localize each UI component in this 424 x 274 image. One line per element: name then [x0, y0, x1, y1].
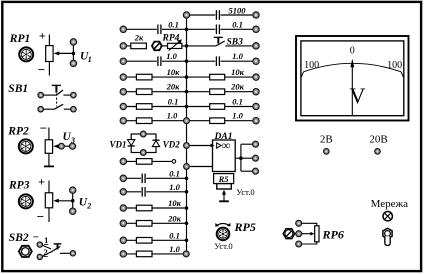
RP1 wiper arrow to node U1	[54, 51, 74, 55]
svg-text:DA1: DA1	[214, 132, 233, 142]
svg-text:100: 100	[304, 60, 319, 71]
wire RP4 screw to body	[162, 45, 168, 47]
terminal 2V	[324, 149, 330, 155]
op-amp DA1 box	[213, 140, 236, 172]
junction lower row	[185, 239, 189, 243]
capacitor 5100	[215, 10, 220, 21]
terminal VD loop top	[140, 131, 146, 137]
svg-text:Мережа: Мережа	[371, 198, 409, 210]
potentiometer RP2 body	[45, 128, 52, 167]
junction row	[185, 90, 189, 94]
svg-text:1.0: 1.0	[232, 51, 243, 61]
svg-text:R5: R5	[218, 174, 230, 184]
DA1 input arrow	[211, 144, 215, 148]
push-button SB1 terminals	[38, 92, 44, 98]
svg-text:0.1: 0.1	[169, 168, 180, 178]
svg-text:VD2: VD2	[163, 139, 181, 149]
resistor 20&#1082; left	[136, 89, 152, 95]
capacitor 0.1 left	[157, 24, 162, 35]
svg-text:10к: 10к	[168, 198, 182, 208]
svg-text:20к: 20к	[166, 82, 181, 92]
vertical bus wire	[186, 15, 188, 254]
capacitor 1.0 right	[215, 56, 220, 67]
SB2 terminal 1	[37, 242, 42, 247]
resistor 0.1 lower	[136, 238, 152, 244]
terminal DA1 out mid	[253, 155, 259, 161]
wire row RP4	[126, 45, 131, 47]
resistor 2k	[131, 43, 147, 49]
RP2 ground bar	[44, 165, 54, 167]
svg-text:SB3: SB3	[227, 37, 244, 47]
terminal U1 bottom	[70, 60, 76, 66]
svg-text:1.0: 1.0	[167, 111, 178, 121]
svg-text:RP2: RP2	[7, 126, 29, 138]
trimmer RP4 screw	[152, 41, 162, 50]
indicator lamp	[383, 212, 392, 221]
junction row RP4	[185, 44, 189, 48]
wire left row 0.1	[126, 28, 186, 30]
svg-text:RP5: RP5	[234, 220, 256, 234]
switch SB3	[187, 37, 253, 46]
wire lower row 20&#1082;	[126, 222, 186, 224]
trimmer RP6 screw	[283, 229, 294, 239]
terminal lower row 20&#1082;	[120, 220, 126, 226]
terminal U2 top	[70, 187, 76, 193]
wire left row 1.0	[126, 60, 186, 62]
svg-text:VD1: VD1	[110, 139, 127, 149]
wire lower row 1.0	[126, 191, 186, 193]
wire right row 0.1	[187, 106, 253, 108]
SB1 bottom pole contact	[43, 104, 70, 109]
RP3 wiper arrow to node U2	[53, 199, 72, 203]
terminal U2 bottom	[70, 208, 76, 214]
svg-text:10к: 10к	[231, 67, 245, 77]
terminal left row 0.1	[120, 103, 126, 109]
svg-text:5100: 5100	[229, 6, 247, 16]
svg-text:20В: 20В	[369, 134, 387, 146]
resistor 1.0 left	[136, 118, 152, 124]
svg-text:RP3: RP3	[8, 180, 30, 192]
potentiometer RP6 body	[315, 226, 319, 242]
terminal right row 1.0	[253, 58, 259, 64]
svg-text:1: 1	[44, 235, 48, 245]
junction row	[185, 105, 189, 109]
DA1 output rail	[241, 144, 253, 171]
junction row	[185, 75, 189, 79]
terminal U3 left	[59, 143, 65, 149]
wire U2 vertical	[72, 193, 74, 210]
wire DA1 lower input	[190, 166, 213, 168]
svg-text:10к: 10к	[167, 67, 181, 77]
svg-text:+: +	[39, 28, 46, 42]
svg-text:100: 100	[387, 60, 402, 71]
wire lower row 0.1	[126, 177, 186, 179]
meter scale arc	[301, 63, 403, 77]
wire lower row 1.0	[126, 253, 186, 255]
terminal 20V	[375, 149, 381, 155]
potentiometer RP3 knob	[19, 194, 33, 208]
junction lower row	[185, 206, 189, 210]
svg-text:2к: 2к	[134, 33, 144, 43]
svg-text:Уст.0: Уст.0	[236, 187, 254, 197]
capacitor 1.0 lower	[141, 187, 146, 198]
label U1	[80, 51, 92, 64]
diode loop VD1 VD2	[131, 134, 156, 153]
meter needle	[350, 59, 354, 116]
resistor 10&#1082; left	[136, 74, 152, 80]
terminal lower row 1.0	[120, 251, 126, 257]
R5 ground bar	[219, 200, 229, 202]
wire lower row 10&#1082;	[126, 207, 186, 209]
capacitor 0.1 right	[215, 24, 220, 35]
junction row 0.1	[185, 28, 189, 32]
terminal open row	[120, 158, 126, 164]
terminal right row 10&#1082;	[253, 74, 259, 80]
svg-text:SB1: SB1	[8, 83, 28, 95]
wire left row 20&#1082;	[126, 91, 186, 93]
junction DA1 output	[239, 156, 243, 160]
svg-text:1.0: 1.0	[232, 111, 243, 121]
terminal U1 top	[70, 39, 76, 45]
RP5 rotation arrow	[215, 223, 230, 227]
svg-text:RP6: RP6	[322, 228, 344, 242]
trimmer R5 box	[214, 174, 234, 184]
terminal left row 1.0	[120, 58, 126, 64]
terminal row RP4 left	[120, 43, 126, 49]
diode VD1	[128, 140, 135, 146]
svg-text:2В: 2В	[320, 134, 333, 146]
label U3	[63, 131, 76, 145]
SB2 contact wires	[42, 245, 60, 256]
resistor row with open end	[126, 160, 172, 162]
potentiometer RP5 knob	[217, 228, 230, 241]
terminal left row 20&#1082;	[120, 89, 126, 95]
svg-text:0: 0	[350, 46, 355, 57]
terminal U3 right	[69, 143, 75, 149]
terminal RP6 bottom	[296, 241, 302, 247]
terminal right row 20&#1082;	[253, 89, 259, 95]
svg-text:20к: 20к	[167, 213, 182, 223]
capacitor 0.1 lower	[141, 173, 146, 184]
SB2 terminal 2	[37, 254, 42, 259]
resistor 0.1 right	[210, 104, 225, 110]
diode VD2	[152, 140, 159, 146]
SB2 right terminal	[70, 251, 75, 256]
wire U1 vertical	[72, 45, 74, 63]
junction U2	[71, 199, 75, 203]
DA1 output wire	[235, 157, 241, 159]
wire left row 10&#1082;	[126, 76, 186, 78]
terminal RP6 mid	[296, 231, 302, 237]
svg-text:V: V	[350, 83, 366, 108]
svg-text:1.0: 1.0	[169, 244, 180, 254]
potentiometer RP2 knob	[19, 139, 33, 153]
svg-text:−: −	[37, 209, 44, 224]
svg-text:0.1: 0.1	[168, 19, 179, 29]
svg-text:0.1: 0.1	[168, 97, 179, 107]
svg-text:20к: 20к	[230, 82, 245, 92]
potentiometer RP1 knob	[19, 47, 33, 61]
terminal RP6 top	[296, 220, 302, 226]
svg-text:−: −	[40, 121, 47, 136]
terminal lower row 0.1	[120, 175, 126, 181]
junction lower row	[185, 177, 189, 181]
wire left row 1.0	[126, 120, 186, 122]
SB1 top pole contact	[44, 90, 71, 95]
potentiometer RP1 body	[46, 35, 53, 76]
bus bottom terminal	[183, 251, 189, 257]
DA1 triangle and infinity	[217, 139, 231, 153]
terminal right row 0.1	[253, 26, 259, 32]
junction lower row	[185, 222, 189, 226]
svg-text:2: 2	[86, 202, 91, 211]
RP6 wires	[302, 223, 317, 244]
potentiometer RP3 body	[45, 181, 52, 223]
wire right row 1.0	[187, 120, 253, 122]
label U2	[79, 197, 92, 211]
resistor 10&#1082; right	[210, 74, 225, 80]
bus terminal DA1 input	[184, 143, 190, 149]
terminal SB3 right	[253, 43, 259, 49]
svg-text:0.1: 0.1	[232, 97, 243, 107]
SB2 panel nut	[19, 246, 32, 257]
junction lower row	[185, 190, 189, 194]
terminal left row 0.1	[120, 26, 126, 32]
open circle end	[172, 160, 176, 164]
terminal row 5100 right	[253, 12, 259, 18]
bus top terminal	[183, 12, 189, 18]
terminal left row 1.0	[120, 118, 126, 124]
terminal right row 1.0	[253, 118, 259, 124]
resistor 1.0 lower	[136, 251, 152, 257]
wire row 5100	[187, 14, 253, 16]
terminal VD loop bottom	[140, 150, 146, 156]
svg-text:0.1: 0.1	[232, 19, 243, 29]
terminal left row 10&#1082;	[120, 74, 126, 80]
SB1 actuator	[52, 85, 61, 106]
svg-text:SB2: SB2	[9, 232, 29, 244]
wire right row 0.1	[187, 28, 253, 30]
resistor 10&#1082; lower	[136, 205, 152, 211]
capacitor 1.0 left	[157, 56, 162, 67]
svg-text:3: 3	[70, 136, 75, 145]
svg-text:0.1: 0.1	[169, 230, 180, 240]
resistor 20&#1082; lower	[136, 221, 152, 227]
svg-text:−: −	[38, 62, 45, 77]
svg-text:−: −	[33, 232, 39, 244]
variable resistor RP4 body	[168, 39, 182, 50]
svg-text:RP1: RP1	[9, 33, 30, 45]
terminal DA1 out top	[253, 141, 259, 147]
wire DA1 plus input	[190, 145, 213, 147]
svg-text:+: +	[38, 174, 45, 188]
svg-text:Уст.0: Уст.0	[214, 241, 232, 251]
RP2 wiper arrow to U3	[53, 144, 70, 148]
svg-text:1: 1	[88, 55, 92, 64]
bus terminal DA1 lower input	[184, 164, 190, 170]
terminal lower row 0.1	[120, 237, 126, 243]
terminal lower row 10&#1082;	[120, 205, 126, 211]
svg-text:RP4: RP4	[162, 33, 180, 43]
resistor 0.1 left	[136, 104, 152, 110]
wire right row 20&#1082;	[187, 91, 253, 93]
meter inner frame	[301, 41, 404, 116]
wire RP4 to bus	[182, 45, 187, 47]
meter outer frame	[296, 36, 409, 121]
SB2 output wire	[60, 252, 70, 254]
wire left row 0.1	[126, 106, 186, 108]
trimmer R5 body	[217, 184, 232, 189]
svg-text:1.0: 1.0	[166, 51, 177, 61]
junction U1	[72, 52, 76, 56]
wire lower row 0.1	[126, 239, 186, 241]
SB2 actuator	[54, 244, 62, 250]
resistor 20&#1082; right	[210, 89, 225, 95]
terminal DA1 out bottom	[253, 168, 259, 174]
junction row 1.0	[185, 59, 189, 63]
terminal right row 0.1	[253, 103, 259, 109]
terminal lower row 1.0	[120, 189, 126, 195]
wire right row 1.0	[187, 60, 253, 62]
svg-text:1.0: 1.0	[169, 182, 180, 192]
bus terminal row 1.0	[184, 118, 190, 124]
power toggle switch	[383, 228, 392, 245]
wire right row 10&#1082;	[187, 76, 253, 78]
resistor 1.0 right	[210, 118, 225, 124]
R5 wiper arrow	[222, 190, 225, 201]
